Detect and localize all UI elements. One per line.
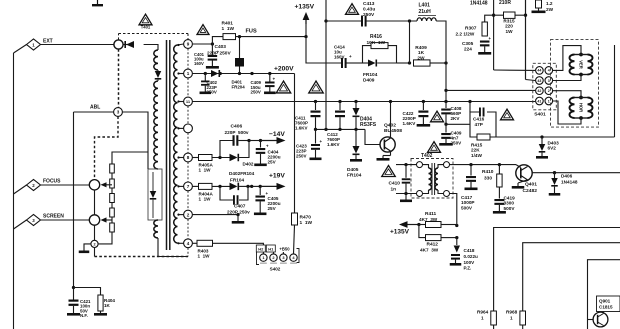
pin 1 [184,69,193,78]
capacitor C412 [338,100,341,103]
diode D409 [363,62,369,64]
svg-text:250V: 250V [296,153,307,158]
dashed wire node top [118,34,120,40]
svg-text:1: 1 [548,99,550,103]
svg-text:330: 330 [484,176,492,182]
svg-text:0.43u: 0.43u [363,7,375,13]
primary loop rect [148,169,162,220]
capacitor C404 electrolytic [260,141,262,148]
wire [111,173,113,179]
dashed wire top to pin9 [119,33,189,35]
svg-text:L401: L401 [419,3,431,9]
zener D403 [541,137,543,144]
wire +135V stem [305,20,307,37]
wire EXT node to diode [123,44,133,46]
svg-text:Q901: Q901 [599,299,611,304]
wire pin4 [192,242,197,244]
svg-text:+135V: +135V [295,4,315,11]
resistor R964 [491,311,497,325]
ground (R3xx) [532,11,546,14]
transistor Q402 [380,137,395,152]
pin 7 [184,182,193,191]
svg-text:44: 44 [537,69,541,73]
resistor divider R3 [110,194,115,203]
arrow into FOCUS pot [106,184,112,186]
svg-text:47P: 47P [475,122,483,127]
wire pin1 rail [192,73,294,75]
pin blank [184,124,193,133]
wire VER to pin3 [553,75,581,81]
svg-text:1K: 1K [418,50,425,56]
S401 pin 44 [536,67,544,75]
divider chain top wire [112,152,148,165]
svg-text:1N4148: 1N4148 [561,180,578,185]
T402 dashed box [411,159,453,199]
wire to -14V [249,140,261,142]
diode D404 [354,100,357,103]
ground (Q402) [377,158,390,161]
junction [417,223,420,226]
svg-text:D409: D409 [363,78,375,84]
S401 pin 43 [536,77,544,85]
svg-text:7: 7 [187,184,190,189]
R416/D409 loop [363,46,372,63]
capacitor C408 [444,100,447,103]
wire [252,185,261,187]
S402 pin 1 [260,254,267,261]
wire R409 to rail [409,21,411,63]
svg-text:C406: C406 [231,124,243,130]
capacitor C419 [498,187,500,199]
wire pin2 to HOR [553,91,581,98]
wire [239,185,252,187]
svg-text:H2: H2 [258,247,264,252]
resistor R405A [192,157,198,159]
S401 pin 41 [536,97,544,105]
diode D402a [230,154,238,162]
arrow +135V left [399,221,408,228]
resistor R409 [414,60,431,66]
resistor R412 [426,235,442,241]
capacitor C409 electrolytic [269,74,271,82]
wire collector [390,102,392,139]
pin 11 [184,97,193,106]
svg-text:2: 2 [93,242,95,246]
wire corner up [239,141,249,158]
svg-text:+: + [349,54,352,59]
svg-text:1: 1 [187,71,190,76]
wire to pin42 [446,89,535,91]
C416 R415 box [470,112,479,137]
coil HOR [579,96,583,100]
junction [469,163,472,166]
wire TL to C410 [396,164,417,166]
S402 pin 4 [290,254,297,261]
ground (C423) [310,158,322,161]
resistor R416 [371,43,388,49]
T402 secondary [438,165,444,168]
svg-text:6V2: 6V2 [548,146,557,151]
wire to R409 [397,62,411,64]
ground (C404) [254,164,267,167]
T402 terminal BL [417,191,423,197]
ground (R404) [94,313,107,316]
capacitor C305 [480,41,490,43]
wire diagonal to EXT [14,45,27,54]
S401 dashed box [533,63,557,110]
ground (C409b) [439,143,453,146]
svg-text:−14V: −14V [269,131,285,138]
wire ABL down [73,112,75,288]
wire [212,157,230,159]
capacitor C411 [314,100,317,103]
resistor R403 [197,240,213,246]
tap wire [178,44,184,45]
wire rail21 [326,20,361,22]
tap wire [178,242,184,244]
wire down to row [306,37,341,63]
wire FOCUS to pot [41,184,90,186]
pin 4 [184,239,193,248]
capacitor C410 [405,165,407,178]
capacitor C402 [204,74,206,81]
svg-text:1 1W: 1 1W [199,197,212,202]
wire diagonal to SCREEN [14,220,27,229]
capacitor C418 [451,254,460,256]
svg-text:224: 224 [464,47,472,52]
svg-text:8: 8 [187,155,190,160]
resistor R470 [292,213,298,225]
svg-text:S402: S402 [270,267,281,272]
svg-text:220P 500v: 220P 500v [225,130,249,135]
svg-text:2KV: 2KV [451,116,461,121]
ground (Q401) [512,186,525,189]
T402 primary [423,165,429,168]
box A outline [494,228,620,312]
wire ABL to primary [122,112,148,169]
svg-text:P.Z.: P.Z. [464,266,472,271]
diode in primary loop [152,172,154,191]
svg-text:BU4508: BU4508 [384,128,402,134]
yoke dashed box [551,40,599,128]
resistor R404 [98,295,103,311]
svg-text:160V: 160V [334,54,345,59]
resistor divider R5 [110,223,115,232]
wire [111,203,113,209]
svg-text:R416: R416 [370,34,382,40]
capacitor C414 electrolytic [341,58,343,68]
wire BR down [450,194,457,226]
diode D405 [355,129,357,146]
svg-text:FOCUS: FOCUS [43,179,61,185]
svg-text:3: 3 [117,110,120,115]
Q901 label box [597,296,620,312]
warning triangle (C410) [382,165,396,176]
wire C410 gnd [405,194,407,200]
junction [204,72,207,75]
svg-text:R968: R968 [506,310,518,315]
svg-text:500V: 500V [461,205,473,210]
junction [553,171,556,174]
primary winding top [154,50,158,70]
wire pin4 to VER [553,46,581,71]
resistor R3xx top right (cut) [536,0,542,8]
wire pot chain [94,190,96,215]
wire [111,188,113,194]
node circle 2 bottom [91,240,98,247]
dashed ABL to focus divider [95,116,119,179]
svg-text:Q401: Q401 [525,182,537,188]
transistor Q401 [516,165,532,181]
svg-text:VER: VER [579,60,584,69]
svg-text:RS3FS: RS3FS [360,122,377,128]
wire emitter [390,151,392,156]
capacitor C416 [479,108,481,117]
ground (D403) [536,156,548,159]
svg-text:C413: C413 [363,1,375,7]
svg-text:1 1W: 1 1W [198,254,211,259]
pin 9 [184,40,193,49]
wire base Q402 [365,129,380,144]
svg-text:FR204: FR204 [232,84,246,89]
wire [212,185,230,187]
dashed pin link [187,49,189,70]
junction [250,185,253,188]
wire primary bottom [158,238,188,257]
pot SCREEN circle [89,215,99,225]
svg-text:41: 41 [537,99,541,103]
wire [111,217,113,223]
wire R403 to S402 [213,243,264,254]
S401 pin 42 [536,87,544,95]
ground (D406) [549,193,561,196]
svg-text:S401: S401 [534,112,546,118]
svg-text:160V: 160V [194,61,204,66]
ground (C419) [493,211,506,214]
svg-text:C416: C416 [473,117,485,122]
svg-text:2: 2 [548,89,550,93]
svg-text:1K: 1K [104,303,111,308]
junction [444,61,447,64]
box B outline [523,243,620,311]
svg-text:D402: D402 [243,162,254,167]
label H2 box [256,245,265,252]
svg-text:R964: R964 [477,310,489,315]
junction [247,139,250,142]
left border line [13,53,15,329]
junction [408,61,411,64]
capacitor C407 [233,195,235,205]
svg-text:250V: 250V [451,141,463,146]
wire pin2 [192,214,238,216]
svg-text:T402: T402 [421,153,433,159]
resistor R315 [504,12,516,18]
svg-text:3: 3 [548,79,550,83]
pin underlines [260,263,267,264]
junction [304,35,307,38]
resistor R411 [419,224,426,226]
svg-text:R409: R409 [415,45,427,51]
ground (C417) [465,188,478,191]
resistor R415 [477,134,490,140]
svg-text:2.2 1/2W: 2.2 1/2W [456,32,475,37]
svg-text:1 1W: 1 1W [300,220,313,226]
wire box to rail1 [469,102,471,113]
svg-text:+: + [320,139,323,144]
svg-text:2W: 2W [417,55,425,61]
S402 pin 2 [273,252,275,254]
junction [444,89,447,92]
tap wire [178,214,184,216]
tap wire [178,73,184,75]
resistor divider R2 [110,179,115,188]
arrow +19V [260,185,277,187]
wire diode to primary [144,45,158,51]
svg-text:0.022u: 0.022u [464,254,478,259]
wire to R404 [74,288,101,296]
ground (C402) [200,92,212,95]
T402 terminal TR [444,162,450,168]
ground (C401) [206,66,219,69]
dashed wire node to ABL [118,49,120,107]
svg-text:25V: 25V [268,206,277,211]
svg-text:N.F.: N.F. [80,313,88,318]
C407 loop [220,186,233,200]
svg-text:1 1W: 1 1W [199,168,212,173]
resistor divider R4 [110,208,115,217]
ground (divider) [79,251,90,254]
svg-text:R401: R401 [222,21,234,27]
ground (D405) [350,159,362,162]
wire chain bottom [98,232,112,244]
junction [444,123,447,126]
transistor Q901 [588,319,594,321]
svg-text:500V: 500V [504,206,516,211]
warning triangle (R401) [197,25,209,35]
ground (C418) [450,263,462,266]
svg-text:D406: D406 [561,174,573,179]
warning triangle (T402) [428,142,441,153]
diode D406 [554,173,556,178]
junction [211,42,214,45]
svg-text:2: 2 [187,212,190,217]
svg-text:D402FR104: D402FR104 [229,171,255,176]
svg-text:4K7 3W: 4K7 3W [419,217,438,222]
svg-text:100V: 100V [464,260,476,265]
ground (C410) [400,200,412,203]
wire EXT to node [41,44,115,46]
ground (C422) [417,124,431,127]
primary winding bottom [154,220,158,238]
ground (pin2) [232,221,245,224]
junction ABL RC [72,286,75,289]
box C outline [588,260,620,329]
wire emitter Q401 [518,180,528,183]
capacitor C413 [361,16,363,27]
right border line [614,45,616,137]
svg-text:250V: 250V [363,12,375,18]
C406 loop [220,141,233,158]
svg-text:FR104: FR104 [230,178,244,183]
svg-text:210R: 210R [499,0,511,6]
diode D402 [230,183,238,191]
wire to pin43 [526,80,536,81]
T402 terminal TL [417,162,423,168]
resistor R410 [498,165,500,174]
svg-text:250V: 250V [251,90,261,95]
coil VER [579,53,583,57]
arrow into SCREEN pot [106,219,112,221]
resistor R401 [223,34,236,40]
capacitor C421 [69,300,79,302]
svg-text:2W: 2W [546,7,554,12]
svg-text:1.6KV: 1.6KV [403,121,417,126]
svg-text:R470: R470 [300,215,312,221]
wire to C416 box [446,123,470,125]
svg-text:+: + [266,144,269,149]
svg-text:FR104: FR104 [347,172,362,178]
tap wire [178,185,184,187]
core lines [166,40,168,250]
junction [219,72,222,75]
svg-text:R410: R410 [482,169,494,175]
primary winding mid [154,81,158,169]
R412 loop [419,225,426,238]
ground (C421) [67,313,80,316]
resistor R404A [192,185,198,187]
wire HOR to pin1 [553,101,581,124]
node EXT big circle [114,40,123,49]
junction [498,163,501,166]
wire down arrow [456,238,458,245]
svg-text:1: 1 [510,316,513,321]
svg-text:1W: 1W [505,29,513,34]
wire down [237,215,239,221]
svg-text:T401: T401 [141,25,151,30]
svg-text:21uH: 21uH [419,9,432,15]
wire SCREEN to pot [41,219,90,221]
wire to ground left [84,244,91,251]
svg-text:1.6KV: 1.6KV [327,142,340,147]
svg-text:C418: C418 [464,248,475,253]
svg-text:ABL: ABL [90,105,100,111]
wire +200V down [294,74,296,214]
wire diagonal to FOCUS [14,185,27,194]
wire rail1 [192,101,535,103]
warning triangle (C413) [346,4,359,15]
svg-text:4K7 3W: 4K7 3W [420,248,439,253]
tap wire [178,101,184,103]
svg-text:C410: C410 [389,181,401,187]
svg-text:HOR: HOR [579,103,584,112]
capacitor C401 electrolytic [211,44,213,55]
pin 8 [184,153,193,162]
resistor divider R1 [110,164,115,173]
diode D401 [211,70,219,77]
svg-text:1n: 1n [391,187,397,193]
svg-text:220P 250V: 220P 250V [207,51,231,57]
capacitor C406 [233,135,235,146]
svg-text:1: 1 [481,316,484,321]
dashed wire bottom rail [94,248,96,257]
svg-text:42: 42 [537,89,541,93]
svg-text:C2482: C2482 [523,188,538,194]
wire R415 rail [496,136,615,138]
svg-text:SCREEN: SCREEN [43,214,64,220]
ground (C409) [264,92,276,95]
arrow +135V [305,19,307,24]
S402 pin 3 [282,252,284,254]
